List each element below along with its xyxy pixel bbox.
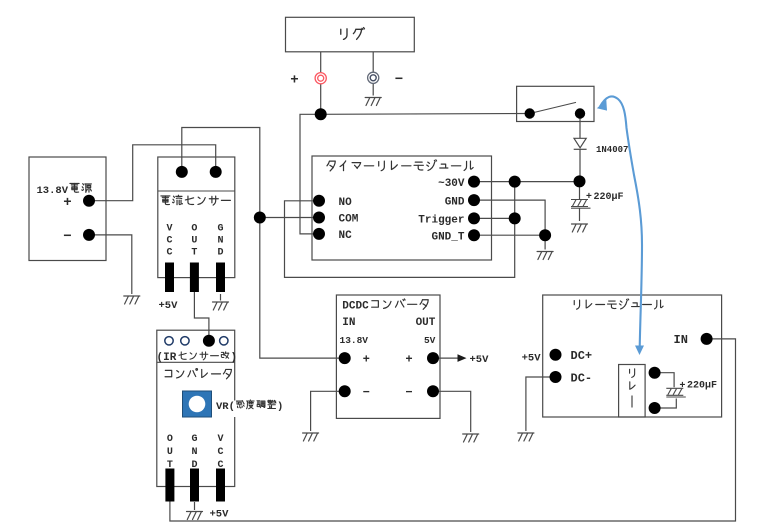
svg-text:): ) (277, 401, 283, 413)
svg-text:5V: 5V (424, 335, 436, 346)
svg-text:GND_T: GND_T (431, 231, 464, 243)
svg-text:IN: IN (342, 317, 355, 329)
svg-text:(IR: (IR (157, 352, 177, 364)
svg-text:U: U (167, 447, 173, 458)
svg-text:G: G (217, 224, 223, 235)
svg-text:13.8V: 13.8V (340, 335, 369, 346)
svg-text:GND: GND (445, 196, 465, 208)
svg-text:~30V: ~30V (438, 178, 465, 190)
svg-text:220µF: 220µF (594, 192, 624, 203)
svg-text:N: N (217, 236, 223, 247)
svg-text:+5V: +5V (470, 354, 490, 366)
svg-text:+: + (63, 193, 71, 209)
svg-text:+: + (680, 380, 686, 391)
svg-text:T: T (191, 248, 197, 259)
svg-text:T: T (167, 460, 173, 471)
svg-text:V: V (166, 224, 172, 235)
svg-text:1N4007: 1N4007 (596, 145, 628, 155)
svg-text:Trigger: Trigger (418, 215, 464, 227)
svg-text:C: C (217, 460, 223, 471)
svg-text:G: G (191, 434, 197, 445)
svg-text:NO: NO (339, 197, 353, 209)
svg-text:220µF: 220µF (687, 380, 717, 391)
svg-text:C: C (166, 236, 172, 247)
svg-text:NC: NC (339, 230, 353, 242)
svg-text:+: + (405, 351, 412, 365)
svg-text:VR(: VR( (216, 401, 235, 413)
svg-text:OUT: OUT (416, 317, 436, 329)
svg-text:O: O (167, 434, 173, 445)
svg-text:U: U (191, 236, 197, 247)
svg-text:+5V: +5V (522, 352, 542, 364)
svg-text:+: + (586, 191, 592, 202)
svg-text:+: + (363, 351, 370, 365)
svg-text:C: C (166, 248, 172, 259)
svg-text:C: C (217, 447, 223, 458)
svg-text:V: V (217, 434, 223, 445)
svg-text:D: D (191, 460, 197, 471)
svg-text:+5V: +5V (159, 300, 179, 312)
svg-text:−: − (363, 385, 370, 399)
svg-text:+5V: +5V (210, 509, 230, 521)
svg-text:DC-: DC- (571, 371, 593, 385)
svg-text:+: + (290, 71, 298, 87)
svg-text:−: − (63, 227, 71, 243)
svg-text:N: N (191, 447, 197, 458)
svg-text:O: O (191, 224, 197, 235)
svg-text:COM: COM (339, 214, 359, 226)
svg-text:): ) (231, 352, 238, 364)
svg-text:−: − (405, 385, 412, 399)
svg-text:D: D (217, 248, 223, 259)
svg-text:IN: IN (674, 333, 688, 347)
svg-text:DC+: DC+ (571, 349, 593, 363)
svg-text:−: − (395, 70, 403, 86)
svg-text:DCDC: DCDC (342, 301, 369, 313)
